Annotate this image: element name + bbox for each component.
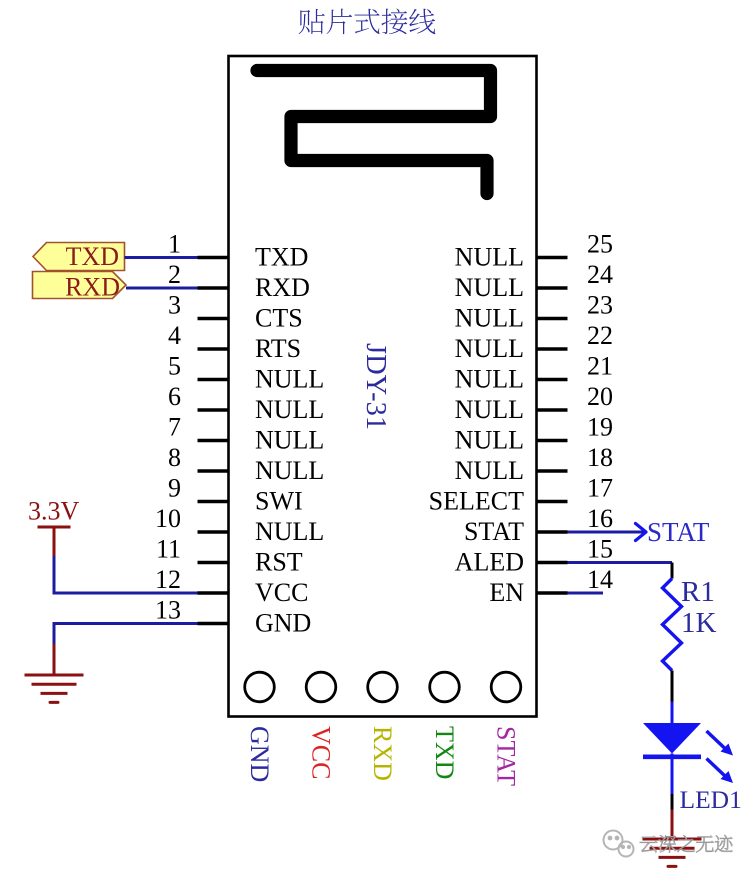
- svg-text:TXD: TXD: [255, 243, 308, 272]
- svg-text:6: 6: [168, 382, 181, 411]
- svg-text:NULL: NULL: [255, 426, 324, 455]
- pin 7 stub: [198, 439, 229, 442]
- svg-text:SWI: SWI: [255, 487, 303, 516]
- ground symbol left: [25, 644, 84, 703]
- wire RXD to pin 2: [126, 287, 198, 290]
- svg-text:LED1: LED1: [680, 785, 742, 814]
- svg-text:NULL: NULL: [455, 426, 524, 455]
- svg-text:25: 25: [587, 230, 613, 259]
- pin 19 stub: [537, 439, 568, 442]
- pin 6 stub: [198, 408, 229, 411]
- wire pin 15 ALED to R1: [568, 561, 673, 564]
- wire pin 13 GND to ground: [54, 624, 198, 644]
- svg-text:VCC: VCC: [307, 726, 336, 779]
- svg-text:NULL: NULL: [455, 273, 524, 302]
- svg-text:ALED: ALED: [455, 548, 524, 577]
- pin 25 stub: [537, 256, 568, 259]
- pin 17 stub: [537, 500, 568, 503]
- svg-text:NULL: NULL: [455, 395, 524, 424]
- ground symbol right: [643, 839, 702, 866]
- svg-text:NULL: NULL: [455, 365, 524, 394]
- R1 bottom pin: [671, 671, 674, 702]
- resistor R1 zigzag: [663, 579, 682, 671]
- svg-text:STAT: STAT: [647, 517, 710, 547]
- svg-text:13: 13: [155, 596, 181, 625]
- STAT arrow head: [636, 524, 647, 541]
- wire 3.3V to pin 12 VCC: [54, 556, 198, 593]
- svg-text:GND: GND: [255, 609, 311, 638]
- pin 10 stub: [198, 530, 229, 533]
- LED light arrow 1: [707, 731, 734, 756]
- pin 24 stub: [537, 286, 568, 289]
- svg-text:RTS: RTS: [255, 334, 301, 363]
- svg-text:14: 14: [587, 565, 613, 594]
- pin 12 stub: [198, 591, 229, 594]
- svg-text:R1: R1: [681, 576, 715, 608]
- pad circle 3: [368, 672, 398, 702]
- svg-text:18: 18: [587, 443, 613, 472]
- pin 3 stub: [198, 317, 229, 320]
- svg-text:9: 9: [168, 474, 181, 503]
- pin 23 stub: [537, 317, 568, 320]
- module body U1 JDY-31 outline: [229, 56, 537, 717]
- net flag TXD: [33, 242, 125, 271]
- svg-text:10: 10: [155, 504, 181, 533]
- pin 22 stub: [537, 347, 568, 350]
- pin 18 stub: [537, 469, 568, 472]
- pin 14 stub: [537, 591, 568, 594]
- svg-text:SELECT: SELECT: [429, 487, 524, 516]
- pin 16 stub: [537, 530, 568, 533]
- wire pin 14 EN stub extension: [568, 592, 604, 595]
- wire TXD to pin 1: [125, 256, 198, 259]
- antenna trace (PCB meander): [257, 71, 491, 194]
- wire LED1 to ground: [671, 810, 674, 840]
- LED1 bottom pin: [671, 794, 674, 810]
- LED1 diode triangle: [643, 723, 701, 754]
- svg-text:NULL: NULL: [455, 334, 524, 363]
- svg-text:RST: RST: [255, 548, 303, 577]
- svg-text:23: 23: [587, 291, 613, 320]
- power symbol 3.3V: [28, 497, 80, 557]
- pin 11 stub: [198, 561, 229, 564]
- title 贴片式接线: [299, 8, 436, 34]
- svg-text:NULL: NULL: [255, 395, 324, 424]
- svg-text:VCC: VCC: [255, 578, 308, 607]
- svg-text:STAT: STAT: [464, 517, 524, 546]
- svg-text:RXD: RXD: [255, 273, 310, 302]
- svg-text:22: 22: [587, 321, 613, 350]
- R1 top pin: [671, 563, 674, 579]
- pin 1 stub: [198, 256, 229, 259]
- svg-text:2: 2: [168, 260, 181, 289]
- watermark logo: [604, 831, 634, 857]
- svg-text:4: 4: [168, 321, 181, 350]
- svg-text:21: 21: [587, 352, 613, 381]
- pin 8 stub: [198, 469, 229, 472]
- pin 15 stub: [537, 561, 568, 564]
- pad circle 2: [306, 672, 336, 702]
- pad circle 5: [491, 672, 521, 702]
- svg-text:8: 8: [168, 443, 181, 472]
- watermark text 云深之无迹: [640, 835, 733, 852]
- svg-text:11: 11: [156, 535, 181, 564]
- svg-text:7: 7: [168, 413, 181, 442]
- svg-text:3: 3: [168, 291, 181, 320]
- svg-text:TXD: TXD: [66, 242, 119, 271]
- svg-text:NULL: NULL: [255, 365, 324, 394]
- pin 5 stub: [198, 378, 229, 381]
- svg-text:16: 16: [587, 504, 613, 533]
- svg-text:1: 1: [168, 230, 181, 259]
- svg-text:12: 12: [155, 565, 181, 594]
- svg-text:24: 24: [587, 260, 613, 289]
- pin 4 stub: [198, 347, 229, 350]
- svg-text:NULL: NULL: [255, 517, 324, 546]
- pin 21 stub: [537, 378, 568, 381]
- svg-text:TXD: TXD: [430, 726, 459, 779]
- svg-text:15: 15: [587, 535, 613, 564]
- pin 9 stub: [198, 500, 229, 503]
- pin 13 stub: [198, 622, 229, 625]
- wire R1 to LED1: [671, 702, 674, 724]
- svg-text:3.3V: 3.3V: [28, 497, 80, 526]
- wire pin 16 STAT out: [568, 531, 645, 534]
- svg-text:5: 5: [168, 352, 181, 381]
- svg-text:17: 17: [587, 474, 613, 503]
- net flag RXD: [33, 272, 127, 302]
- svg-text:NULL: NULL: [255, 456, 324, 485]
- svg-text:19: 19: [587, 413, 613, 442]
- LED light arrow 2: [707, 759, 734, 784]
- svg-text:JDY-31: JDY-31: [360, 343, 391, 430]
- svg-text:RXD: RXD: [368, 726, 397, 781]
- LED1 vertical through wire: [671, 754, 674, 795]
- svg-text:NULL: NULL: [455, 304, 524, 333]
- svg-text:RXD: RXD: [65, 273, 120, 302]
- svg-text:CTS: CTS: [255, 304, 303, 333]
- svg-text:NULL: NULL: [455, 456, 524, 485]
- svg-text:STAT: STAT: [492, 726, 521, 786]
- svg-text:EN: EN: [489, 578, 524, 607]
- svg-text:20: 20: [587, 382, 613, 411]
- pad circle 4: [430, 672, 460, 702]
- svg-text:GND: GND: [245, 726, 274, 782]
- pin 2 stub: [198, 286, 229, 289]
- svg-text:NULL: NULL: [455, 243, 524, 272]
- svg-text:1K: 1K: [681, 607, 717, 639]
- LED1 cathode bar: [643, 754, 701, 759]
- pad circle 1: [245, 672, 275, 702]
- pin 20 stub: [537, 408, 568, 411]
